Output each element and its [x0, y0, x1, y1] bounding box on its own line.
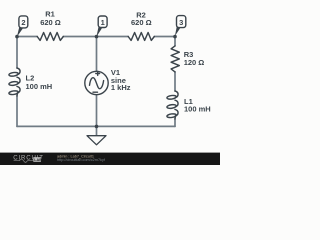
resistor R2: [128, 33, 154, 41]
svg-text:3: 3: [179, 18, 183, 27]
wire V1 to bottom rail: [96, 95, 98, 127]
node flag 3: [175, 16, 186, 36]
label V1 value: [111, 68, 131, 92]
svg-text:620 Ω: 620 Ω: [131, 18, 152, 27]
svg-text:120 Ω: 120 Ω: [184, 58, 205, 67]
svg-text:http://circuitlab.com/c2m7kyf: http://circuitlab.com/c2m7kyf: [57, 158, 106, 162]
label R3 value: [184, 50, 205, 67]
node flag 1: [96, 16, 107, 37]
label L1 value: [184, 97, 211, 114]
wire node1 to V1: [96, 37, 98, 72]
wire left column lower: [16, 96, 18, 126]
inductor L2: [9, 68, 20, 96]
watermark bar: [0, 153, 220, 165]
svg-text:2: 2: [21, 18, 25, 27]
wire bottom rail: [17, 125, 175, 127]
wire ground stem: [96, 126, 98, 135]
wire R3 to L1: [174, 72, 176, 91]
svg-text:LAB: LAB: [34, 158, 42, 162]
junction node 3: [173, 35, 177, 39]
inductor L1: [167, 91, 178, 119]
svg-text:1 kHz: 1 kHz: [111, 83, 131, 92]
wire L1 to bottom rail: [174, 119, 176, 126]
label L2 value: [26, 74, 53, 91]
junction node 1: [95, 35, 99, 39]
node flag 2: [17, 16, 28, 37]
resistor R1: [37, 33, 63, 41]
junction bottom center: [95, 125, 99, 129]
label R1 value: [40, 10, 61, 27]
wire R2 to node 3: [154, 36, 175, 38]
resistor R3: [171, 46, 179, 72]
wire node2 to R1: [17, 36, 37, 38]
wire node3 to R3: [174, 37, 176, 46]
svg-text:100 mH: 100 mH: [184, 105, 211, 114]
svg-text:100 mH: 100 mH: [26, 82, 53, 91]
junction node 2: [15, 35, 19, 39]
label R2 value: [131, 10, 152, 27]
svg-text:1: 1: [101, 18, 105, 27]
svg-text:620 Ω: 620 Ω: [40, 18, 61, 27]
voltage source V1: [85, 71, 108, 94]
wire left column upper: [16, 37, 18, 69]
wire R1 to R2 through node 1: [63, 36, 128, 38]
ground: [87, 136, 106, 145]
